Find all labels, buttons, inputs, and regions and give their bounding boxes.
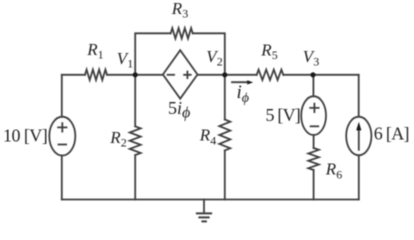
svg-text:V2: V2	[206, 47, 222, 69]
svg-text:R3: R3	[171, 0, 188, 21]
svg-text:5iϕ: 5iϕ	[168, 98, 190, 121]
svg-text:iϕ: iϕ	[237, 82, 250, 106]
svg-text:V1: V1	[117, 49, 133, 71]
svg-text:R2: R2	[109, 128, 126, 150]
svg-text:10 [V]: 10 [V]	[3, 126, 47, 146]
svg-text:V3: V3	[303, 47, 319, 69]
svg-text:R4: R4	[199, 126, 216, 148]
svg-text:R1: R1	[86, 40, 103, 62]
svg-text:R6: R6	[325, 160, 342, 182]
svg-text:R5: R5	[260, 40, 277, 62]
svg-text:5 [V]: 5 [V]	[266, 105, 301, 125]
svg-text:6 [A]: 6 [A]	[374, 123, 409, 143]
